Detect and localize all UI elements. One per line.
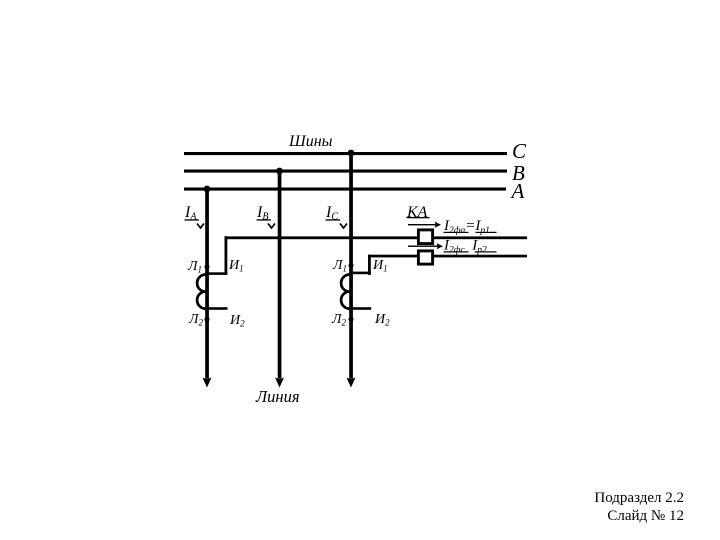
- wire stub И2 of CT A: [205, 307, 227, 310]
- node phase C tap on bus C: [348, 150, 355, 157]
- node Л2 of CT C: [349, 317, 354, 322]
- relay KA upper coil box: [418, 230, 432, 244]
- label current IC: [325, 204, 340, 223]
- wire secondary circuit phase A (to relay KA upper coil): [225, 236, 528, 239]
- relay KA lower coil box: [418, 251, 432, 264]
- bus A: [184, 188, 506, 191]
- svg-text:A: A: [510, 179, 525, 203]
- arrow IA direction chevron: [197, 224, 204, 229]
- arrow phase C to line: [347, 378, 356, 388]
- svg-text:Подраздел 2.2: Подраздел 2.2: [594, 490, 684, 506]
- arrow IB direction chevron: [268, 224, 275, 229]
- wire phase B vertical: [278, 170, 282, 379]
- svg-text:Шины: Шины: [288, 133, 333, 150]
- wire secondary circuit phase C (to relay KA lower coil): [368, 255, 527, 258]
- wire riser from CT C terminal И1: [368, 255, 371, 275]
- label I2фа=Iр1: [443, 218, 497, 236]
- svg-text:C: C: [512, 139, 527, 163]
- node Л2 of CT A: [205, 317, 210, 322]
- node phase B tap on bus B: [276, 168, 283, 175]
- svg-text:Линия: Линия: [255, 387, 300, 406]
- current transformer CT A secondary winding: [197, 275, 207, 309]
- node Л1 of CT A: [205, 264, 210, 269]
- bus C: [184, 152, 507, 155]
- arrow phase B to line: [275, 378, 284, 388]
- wire phase C vertical: [349, 152, 353, 379]
- arrow IC direction chevron: [340, 224, 347, 229]
- label current IB: [256, 204, 271, 223]
- label KA: [406, 204, 430, 221]
- wire phase A vertical: [205, 188, 209, 379]
- wire stub И1 of CT C: [349, 272, 371, 275]
- node phase A tap on bus A: [204, 186, 211, 193]
- bus B: [184, 170, 507, 173]
- node Л1 of CT C: [349, 263, 354, 268]
- svg-text:Слайд № 12: Слайд № 12: [607, 508, 684, 524]
- arrow current into KA lower coil: [408, 243, 443, 249]
- wire stub И2 of CT C: [349, 307, 371, 310]
- label current IA: [184, 204, 199, 223]
- wire stub И1 of CT A: [205, 272, 227, 275]
- current transformer CT C secondary winding: [341, 275, 351, 309]
- label I2фс Iр2: [443, 238, 497, 256]
- svg-text:KA: KA: [406, 204, 428, 221]
- wire riser from CT A terminal И1: [225, 236, 228, 275]
- arrow phase A to line: [203, 378, 212, 388]
- arrow current into KA upper coil: [408, 222, 441, 228]
